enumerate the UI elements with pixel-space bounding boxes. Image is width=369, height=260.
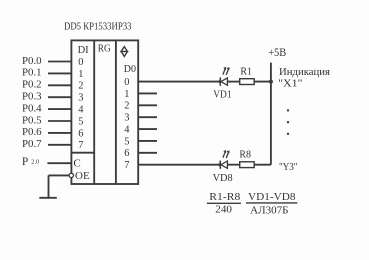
svg-text:6: 6 (124, 148, 129, 159)
value note VD1-VD8 (248, 192, 296, 203)
junction node on rail at R1 (269, 80, 273, 84)
node label P0.3 (22, 92, 42, 103)
label RG (98, 44, 111, 55)
node label P0.7 (22, 139, 42, 150)
svg-text:АЛ307Б: АЛ307Б (250, 205, 289, 216)
wire P0.7 to DI pin 7 (48, 144, 71, 146)
svg-text:P0.6: P0.6 (22, 127, 42, 138)
DI pin number 7 (78, 140, 83, 151)
node label P0.6 (22, 127, 42, 138)
svg-text:7: 7 (78, 140, 83, 151)
node label P0.1 (22, 68, 42, 79)
wire output 7 to VD8 cathode (138, 164, 220, 166)
wire R1 to +5V rail (254, 81, 271, 83)
designator label DD5 KR1533IR33 (64, 22, 132, 33)
DI pin number 5 (78, 116, 83, 127)
svg-text:4: 4 (78, 105, 84, 116)
svg-text:DI: DI (78, 45, 90, 56)
ground symbol (39, 197, 57, 199)
wire output stub 4 (138, 128, 157, 130)
wire P0.2 to DI pin 2 (48, 84, 71, 86)
svg-text:5: 5 (78, 116, 83, 127)
annotation Indikatsiya (279, 67, 330, 78)
svg-text:0: 0 (78, 57, 83, 68)
svg-text:P0.5: P0.5 (22, 115, 42, 126)
svg-text:240: 240 (215, 204, 232, 215)
svg-text:P0.3: P0.3 (22, 92, 42, 103)
svg-text:2.0: 2.0 (31, 159, 39, 166)
svg-text:P: P (22, 156, 28, 168)
svg-text:RG: RG (98, 44, 111, 55)
wire OE to ground (49, 175, 70, 197)
DI pin number 1 (78, 69, 83, 80)
output pin number 1 (124, 89, 129, 100)
register DD5 body outline (71, 40, 138, 184)
wire P0.0 to DI pin 0 (48, 61, 71, 63)
OE inversion bubble (69, 173, 73, 177)
svg-text:0: 0 (124, 77, 129, 88)
DD5 left column divider (93, 40, 95, 184)
svg-text:"X1": "X1" (278, 78, 302, 89)
svg-text:1: 1 (124, 89, 129, 100)
label D0 (124, 64, 136, 75)
wire output stub 1 (138, 92, 157, 94)
annotation "X1" (278, 78, 302, 89)
output pin number 6 (124, 148, 129, 159)
value label VD1 (213, 90, 231, 101)
LED VD8 (218, 151, 229, 169)
svg-text:"Y3": "Y3" (279, 162, 298, 173)
svg-text:4: 4 (124, 124, 130, 135)
wire P0.1 to DI pin 1 (48, 72, 71, 74)
node label P0.0 (22, 56, 42, 67)
fraction bar under R1-R8 (207, 202, 241, 204)
node label P0.5 (22, 115, 42, 126)
svg-text:5: 5 (124, 136, 129, 147)
annotation "Y3" (279, 162, 298, 173)
svg-text:3: 3 (78, 93, 83, 104)
svg-text:3: 3 (124, 113, 129, 124)
value note AL307B (250, 205, 289, 216)
resistor R1 (240, 79, 255, 85)
svg-text:VD1-VD8: VD1-VD8 (248, 192, 296, 203)
power label +5V (268, 45, 286, 59)
svg-text:R1-R8: R1-R8 (209, 192, 240, 203)
DI pin number 0 (78, 57, 83, 68)
wire P0.5 to DI pin 5 (48, 120, 71, 122)
node label P0.4 (22, 103, 42, 114)
svg-text:P0.1: P0.1 (22, 68, 42, 79)
DD5 right column divider (115, 40, 117, 184)
value label R8 (239, 150, 251, 161)
svg-text:R8: R8 (239, 150, 251, 161)
svg-text:P0.7: P0.7 (22, 139, 42, 150)
svg-text:2: 2 (78, 81, 83, 92)
DI pin number 6 (78, 128, 83, 139)
svg-text:6: 6 (78, 128, 83, 139)
DI pin number 4 (78, 105, 84, 116)
output pin number 5 (124, 136, 129, 147)
pin label OE (75, 170, 90, 182)
wire output stub 3 (138, 116, 157, 118)
wire output stub 2 (138, 104, 157, 106)
wire VD1 to R1 (227, 81, 239, 83)
label DI (78, 45, 90, 56)
wire P0.4 to DI pin 4 (48, 108, 71, 110)
svg-text:+5В: +5В (268, 45, 286, 59)
svg-text:P0.0: P0.0 (22, 56, 42, 67)
output pin number 0 (124, 77, 129, 88)
node label P0.2 (22, 80, 42, 91)
svg-text:VD8: VD8 (213, 173, 233, 184)
svg-text:P0.4: P0.4 (22, 103, 42, 114)
value label R1 (240, 67, 252, 78)
svg-text:VD1: VD1 (213, 90, 231, 101)
svg-text:Индикация: Индикация (279, 67, 330, 78)
DD5 control section divider (71, 152, 94, 154)
LED VD1 (218, 68, 229, 86)
value note 240 (215, 204, 232, 215)
svg-text:C: C (73, 158, 80, 170)
+5V supply rail (270, 63, 272, 165)
svg-text:P0.2: P0.2 (22, 80, 42, 91)
svg-text:D0: D0 (124, 64, 136, 75)
wire output stub 5 (138, 140, 157, 142)
output pin number 2 (124, 101, 129, 112)
fraction bar under VD1-VD8 (246, 202, 297, 204)
output pin number 3 (124, 113, 129, 124)
wire P0.3 to DI pin 3 (48, 96, 71, 98)
wire output 0 to VD1 cathode (138, 81, 220, 83)
ellipsis dots (287, 109, 289, 135)
wire output stub 6 (138, 152, 157, 154)
svg-text:2: 2 (124, 101, 129, 112)
wire P2.0 to C input (47, 162, 71, 164)
output pin number 4 (124, 124, 130, 135)
value label VD8 (213, 173, 233, 184)
svg-text:1: 1 (78, 69, 83, 80)
output pin number 7 (124, 160, 129, 171)
three-state output symbol (120, 47, 128, 57)
svg-text:R1: R1 (240, 67, 252, 78)
svg-text:7: 7 (124, 160, 129, 171)
DI pin number 3 (78, 93, 83, 104)
pin label C (73, 158, 80, 170)
wire R8 to +5V rail (254, 164, 271, 166)
svg-text:DD5 КР1533ИР33: DD5 КР1533ИР33 (64, 22, 132, 33)
wire VD8 to R8 (227, 164, 239, 166)
DI pin number 2 (78, 81, 83, 92)
svg-text:OE: OE (75, 170, 90, 182)
resistor R8 (240, 162, 255, 168)
wire P0.6 to DI pin 6 (48, 132, 71, 134)
node label P2.0 (22, 156, 39, 168)
value note R1-R8 (209, 192, 240, 203)
